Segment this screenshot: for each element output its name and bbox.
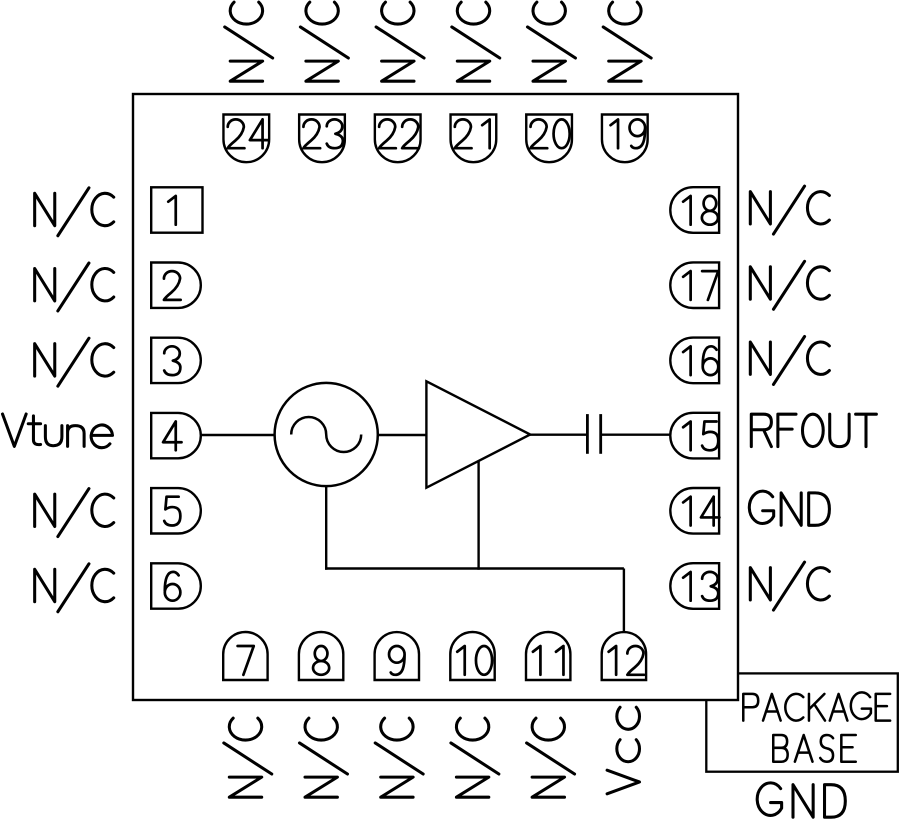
net label pin 8: N/C (rotated) (299, 718, 347, 797)
net label pin 18: N/C (750, 186, 829, 234)
wire pin4 to oscillator (200, 434, 278, 436)
net label pin 2: N/C (35, 263, 114, 311)
pin 22 (375, 115, 421, 163)
pin 15 (670, 413, 719, 459)
pin 5 (151, 488, 201, 533)
net label pin 12: Vcc (rotated) (607, 707, 639, 794)
net label pin 1: N/C (35, 188, 114, 236)
wire capacitor to pin15 (601, 434, 673, 436)
pin 18 (670, 187, 719, 233)
net label pin 15: RFOUT (751, 414, 876, 446)
net label pin 13: N/C (750, 562, 829, 610)
net label pin 24: N/C (rotated) (225, 2, 273, 81)
pin 16 (670, 338, 719, 384)
net label pin 9: N/C (rotated) (375, 718, 423, 797)
pin 2 (151, 263, 201, 308)
net label pin 22: N/C (rotated) (376, 2, 424, 81)
net label pin 14: GND (749, 491, 829, 525)
pin 11 (526, 632, 570, 680)
pin 17 (670, 262, 719, 308)
net label pin 5: N/C (35, 489, 114, 537)
net label pin 6: N/C (35, 564, 114, 612)
net label pin 17: N/C (750, 261, 829, 309)
wire amplifier bottom drop (477, 460, 479, 570)
label GND (package base net) (757, 783, 845, 817)
net label pin 7: N/C (rotated) (224, 718, 272, 797)
net label pin 20: N/C (rotated) (527, 2, 575, 81)
pin 13 (670, 563, 719, 609)
IC body outline (133, 94, 738, 700)
pin 12 (602, 632, 646, 680)
net label pin 21: N/C (rotated) (452, 2, 500, 81)
wire oscillator bottom drop (325, 484, 327, 570)
package base box (706, 673, 898, 771)
pin 7 (223, 632, 267, 680)
pin 9 (375, 632, 419, 680)
net label pin 11: N/C (rotated) (527, 718, 575, 797)
pin 3 (151, 338, 201, 383)
net label pin 23: N/C (rotated) (300, 2, 348, 81)
pin 21 (451, 115, 497, 163)
net label pin 16: N/C (750, 336, 829, 384)
pin 20 (526, 115, 572, 163)
wire drop to pin12 (623, 569, 625, 635)
pin 8 (299, 632, 343, 680)
net label pin 3: N/C (35, 338, 114, 386)
pin 19 (602, 115, 648, 163)
pin 10 (450, 632, 494, 680)
pin 6 (151, 563, 201, 608)
wire oscillator to amplifier (376, 434, 428, 436)
pin 14 (670, 488, 719, 534)
amplifier buffer (426, 381, 530, 487)
pin 1 (151, 187, 202, 232)
pin 23 (299, 115, 345, 163)
label PACKAGE BASE (743, 692, 890, 761)
net label pin 19: N/C (rotated) (603, 2, 651, 81)
wire horizontal bus (325, 567, 624, 569)
net label pin 10: N/C (rotated) (451, 718, 499, 797)
pin 24 (223, 115, 269, 163)
capacitor (DC block) (587, 414, 600, 454)
pin 4 (151, 413, 201, 458)
wire amplifier to capacitor (529, 434, 587, 436)
oscillator (VCO source) (275, 383, 378, 486)
net label pin 4: Vtune (3, 414, 113, 448)
